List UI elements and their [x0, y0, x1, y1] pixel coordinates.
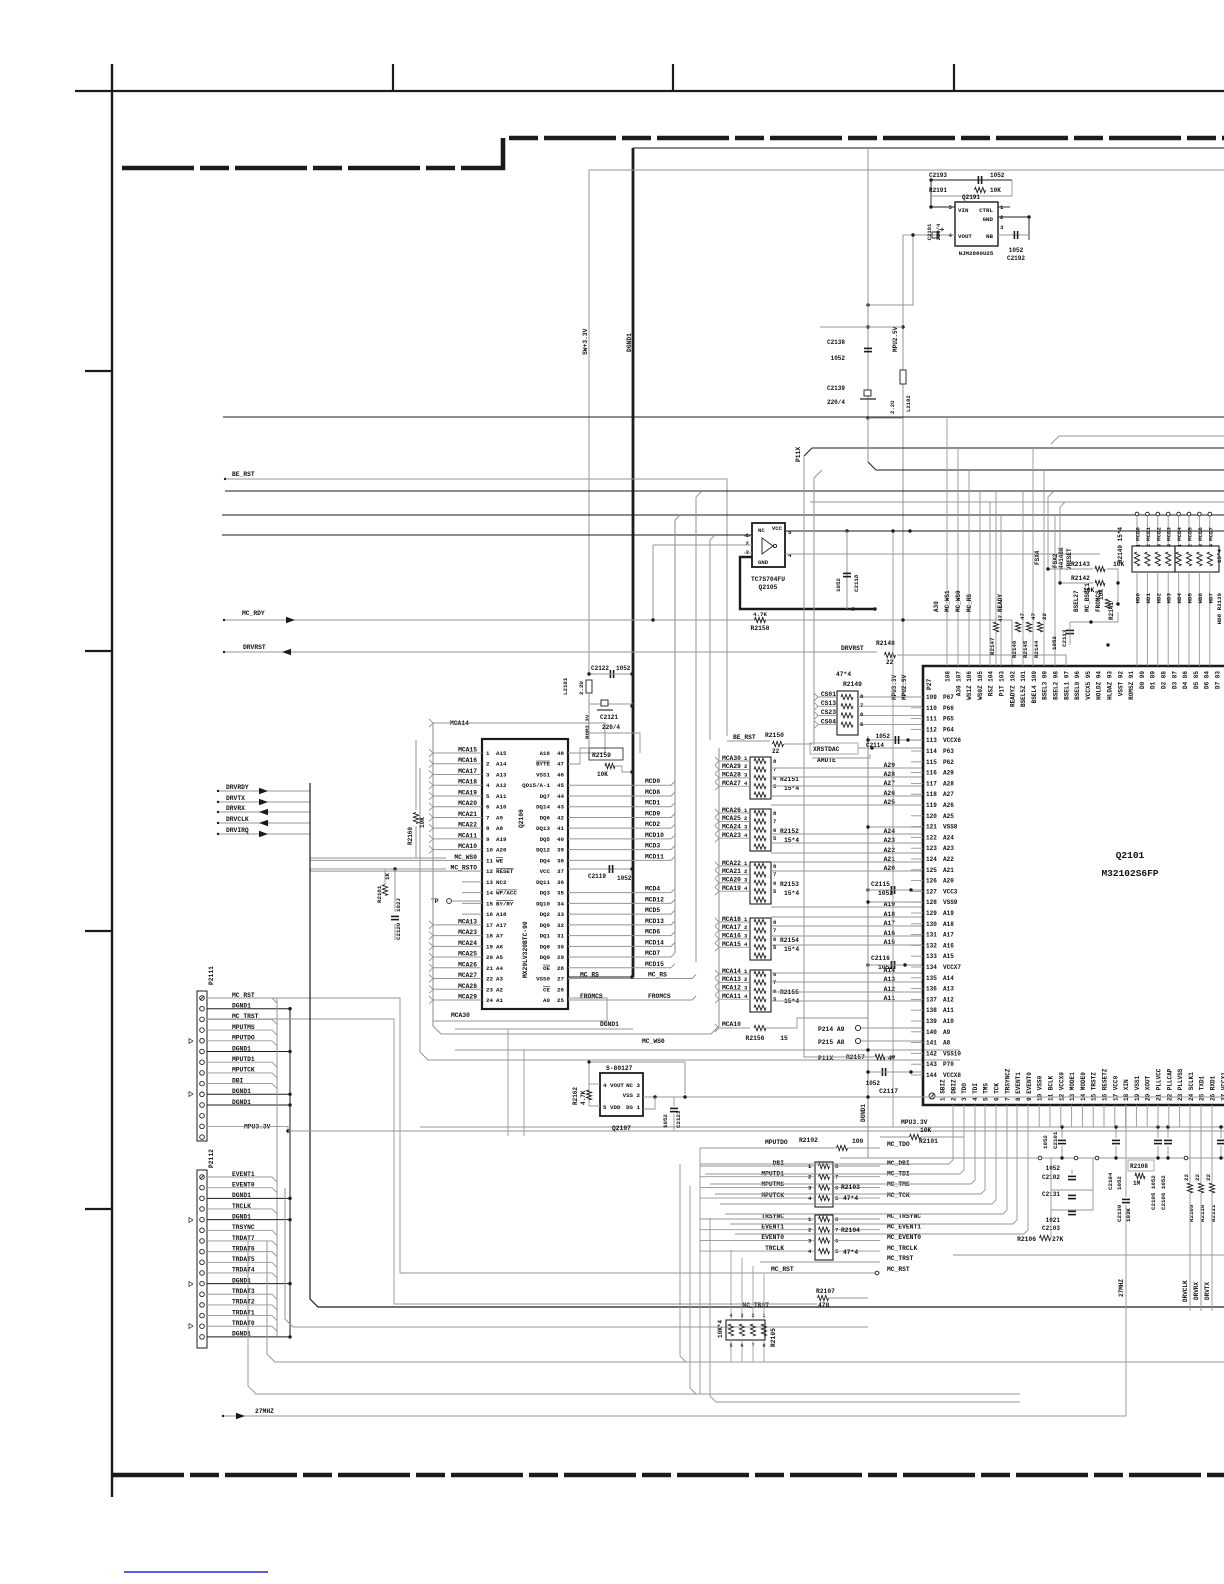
svg-text:2.2U: 2.2U: [889, 401, 896, 414]
svg-text:READY: READY: [997, 594, 1004, 612]
svg-text:MCD3: MCD3: [1166, 527, 1173, 541]
svg-text:S-80127: S-80127: [606, 1065, 633, 1072]
svg-text:27: 27: [557, 976, 564, 983]
svg-text:137: 137: [926, 996, 937, 1003]
resistor R2141 10K vertical: [1105, 599, 1110, 609]
svg-text:BSEL5Z 101: BSEL5Z 101: [1020, 671, 1027, 707]
nested corner wires from IC bottom pins to left: [949, 1105, 953, 1164]
svg-text:DQ2: DQ2: [540, 911, 551, 918]
svg-text:1052: 1052: [616, 665, 631, 672]
svg-text:21: 21: [486, 965, 493, 972]
bus line y448: [804, 448, 1224, 456]
svg-text:3 TDO: 3 TDO: [961, 1083, 968, 1101]
svg-text:R2145: R2145: [1022, 640, 1029, 658]
svg-text:MC_TRCLK: MC_TRCLK: [887, 1245, 917, 1252]
wire flash DGND1 pin27: [568, 976, 633, 978]
svg-text:MCA26: MCA26: [458, 961, 477, 968]
svg-text:27MHZ: 27MHZ: [255, 1408, 274, 1415]
svg-text:47: 47: [997, 615, 1004, 622]
svg-text:17: 17: [486, 922, 493, 929]
svg-text:HD6: HD6: [1197, 592, 1204, 603]
svg-text:A13: A13: [943, 986, 954, 993]
svg-text:MCA21: MCA21: [458, 811, 477, 818]
svg-text:132: 132: [926, 942, 937, 949]
svg-text:R2103: R2103: [841, 1184, 860, 1191]
svg-text:2: 2: [746, 540, 750, 547]
bus line y436: [1051, 436, 1224, 444]
svg-text:122: 122: [926, 834, 937, 841]
svg-text:22: 22: [886, 659, 894, 666]
svg-text:C2121: C2121: [600, 714, 618, 721]
svg-text:A13: A13: [496, 771, 507, 778]
border: left vertical frame line: [111, 64, 113, 1497]
wire ROM3.3V to flash VCC route: [589, 733, 640, 753]
border tick left y931: [85, 930, 112, 932]
svg-text:P2111: P2111: [208, 966, 215, 985]
svg-text:1: 1: [486, 750, 490, 757]
svg-text:R2146: R2146: [1011, 640, 1018, 658]
wire READY drop to IC pin 102: [1011, 620, 1013, 666]
svg-text:MCD10: MCD10: [645, 832, 664, 839]
svg-text:A8: A8: [943, 1040, 951, 1047]
svg-text:MX29LV320BTC-90: MX29LV320BTC-90: [522, 921, 529, 978]
svg-text:D7 83: D7 83: [1215, 671, 1222, 689]
svg-text:VCC3: VCC3: [943, 888, 958, 895]
svg-text:20: 20: [486, 954, 493, 961]
svg-text:DRVIRQ: DRVIRQ: [226, 827, 249, 834]
svg-text:A5: A5: [496, 954, 503, 961]
svg-text:40: 40: [557, 836, 564, 843]
svg-text:A12: A12: [496, 782, 507, 789]
resistor R2160 10K vertical: [415, 740, 417, 810]
svg-text:OE: OE: [543, 965, 550, 972]
capacitor C2138 1052: [867, 148, 869, 418]
svg-text:A11: A11: [496, 793, 507, 800]
svg-text:22: 22: [772, 748, 780, 755]
svg-text:MCD4: MCD4: [645, 886, 660, 893]
svg-text:BYTE: BYTE: [536, 761, 550, 768]
svg-text:A14: A14: [943, 975, 954, 982]
svg-text:47*4: 47*4: [843, 1249, 858, 1256]
svg-text:MCA25: MCA25: [458, 951, 477, 958]
svg-text:HD8 R2139: HD8 R2139: [1216, 592, 1223, 624]
svg-text:A16: A16: [943, 942, 954, 949]
resistor R2158 4.7K on MC_RDY: [755, 617, 766, 622]
svg-text:DRVRST: DRVRST: [243, 644, 266, 651]
svg-text:R2105: R2105: [770, 1328, 777, 1347]
svg-text:NC: NC: [758, 527, 765, 534]
svg-text:1: 1: [1000, 204, 1004, 211]
svg-text:MPU2.5V: MPU2.5V: [901, 674, 908, 700]
svg-text:5 TMS: 5 TMS: [983, 1083, 990, 1101]
svg-text:MCA13: MCA13: [458, 918, 477, 925]
svg-text:119: 119: [926, 802, 937, 809]
svg-text:A15: A15: [496, 750, 507, 757]
svg-text:A18: A18: [496, 911, 507, 918]
svg-text:R2162: R2162: [572, 1087, 579, 1105]
resistor network R2104 47*4: [815, 1215, 833, 1260]
svg-text:MCA28: MCA28: [458, 983, 477, 990]
svg-text:WP/ACC: WP/ACC: [496, 890, 517, 897]
svg-text:DQ5: DQ5: [540, 836, 551, 843]
svg-text:28: 28: [557, 965, 564, 972]
svg-text:DGND1: DGND1: [860, 1104, 867, 1122]
svg-text:MCD8: MCD8: [645, 789, 660, 796]
bus line y491: [225, 490, 1224, 492]
svg-text:139: 139: [926, 1018, 937, 1025]
svg-text:C2192: C2192: [1007, 255, 1025, 262]
svg-text:MCD4: MCD4: [1176, 527, 1183, 541]
svg-text:A27: A27: [943, 791, 954, 798]
svg-text:130: 130: [926, 921, 937, 928]
svg-text:A22: A22: [943, 856, 954, 863]
bus line y470: [868, 462, 1224, 470]
svg-text:4: 4: [486, 782, 490, 789]
svg-text:R2140 15*4: R2140 15*4: [1117, 527, 1124, 563]
svg-text:MC_RS: MC_RS: [966, 594, 973, 612]
bus MCD vertical collector x675: [674, 520, 676, 953]
svg-text:31: 31: [557, 933, 564, 940]
bus line y515: [222, 514, 1224, 516]
svg-text:P214 A9: P214 A9: [818, 1026, 845, 1033]
svg-text:C2115: C2115: [871, 881, 890, 888]
svg-text:1052: 1052: [1051, 636, 1058, 650]
svg-text:15*4: 15*4: [1216, 549, 1223, 563]
svg-text:13: 13: [486, 879, 493, 886]
svg-text:VDD: VDD: [610, 1104, 621, 1111]
connector group marks P2111: [189, 1039, 193, 1044]
svg-text:QD15/A-1: QD15/A-1: [522, 782, 550, 789]
svg-text:C2123: C2123: [675, 1110, 682, 1128]
capacitor C2117 1052: [881, 1068, 883, 1076]
svg-text:P62: P62: [943, 759, 954, 766]
net 27MHZ wire with arrow: [223, 1415, 1126, 1417]
svg-text:A20: A20: [496, 847, 507, 854]
svg-text:C2139: C2139: [827, 385, 845, 392]
capacitor C2130 103K on 27MHZ: [1122, 1198, 1130, 1200]
wire MCD4 drop to R2140: [1177, 512, 1181, 516]
IC bottom pin vertical stubs to decoupling rows: [1038, 1105, 1040, 1127]
svg-text:NB: NB: [986, 233, 993, 240]
svg-text:18: 18: [486, 933, 493, 940]
svg-text:MCD9: MCD9: [645, 810, 660, 817]
svg-text:4 TDI: 4 TDI: [972, 1083, 979, 1101]
svg-text:15*4: 15*4: [784, 998, 799, 1005]
svg-text:BSEL1 97: BSEL1 97: [1063, 671, 1070, 700]
net XRSTDAC: [810, 743, 858, 754]
bus MCA vertical collector: [433, 723, 719, 1034]
wire inverter pin5 VCC to right: [785, 530, 1224, 532]
svg-text:NC 3: NC 3: [626, 1082, 640, 1089]
svg-text:VSS9: VSS9: [943, 899, 958, 906]
svg-text:15*4: 15*4: [784, 890, 799, 897]
svg-text:MCA17: MCA17: [458, 768, 477, 775]
svg-text:VIN: VIN: [958, 207, 969, 214]
svg-text:DRVTX: DRVTX: [1204, 1282, 1211, 1300]
svg-text:A19: A19: [496, 836, 507, 843]
svg-text:128: 128: [926, 899, 937, 906]
inverter U Q2105 TC7S704FU box: [752, 523, 785, 567]
svg-text:MCD15: MCD15: [645, 961, 664, 968]
resistor R2162 4.7K vertical: [586, 1090, 591, 1100]
svg-text:1052: 1052: [662, 1114, 669, 1128]
wire XIN 27MHZ column from pin18: [1125, 1105, 1127, 1158]
svg-text:A26: A26: [943, 802, 954, 809]
svg-text:HD5: HD5: [1187, 592, 1194, 603]
regulator Q2191 NJM2880U25: [955, 202, 998, 246]
svg-text:ROMSZ 91: ROMSZ 91: [1128, 671, 1135, 700]
svg-text:22: 22: [1041, 613, 1048, 620]
wire DGND1 top horizontal: [633, 147, 1224, 149]
svg-text:A17: A17: [943, 932, 954, 939]
svg-text:MCD6: MCD6: [645, 929, 660, 936]
inductor L2102 2.2U: [900, 370, 906, 384]
svg-text:46: 46: [557, 771, 564, 778]
bus line y535 left of inverter: [222, 534, 752, 536]
resistor network R2155 15*4: [750, 970, 771, 1012]
svg-text:P11X: P11X: [818, 1055, 833, 1062]
svg-text:VCC: VCC: [772, 525, 783, 532]
svg-text:DGND1: DGND1: [626, 333, 633, 352]
svg-text:HD4: HD4: [1176, 592, 1183, 603]
wire MCD1 drop to R2140: [1146, 512, 1150, 516]
bus BE_RST vertical x710: [709, 540, 711, 740]
bus vertical x310 from DRV arrows: [310, 783, 1224, 1307]
svg-text:MCA11: MCA11: [458, 832, 477, 839]
svg-text:MC_RST: MC_RST: [771, 1266, 794, 1273]
svg-text:C2105 1052: C2105 1052: [1150, 1175, 1157, 1210]
svg-text:109: 109: [926, 694, 937, 701]
svg-text:7: 7: [773, 818, 776, 825]
svg-text:10K: 10K: [419, 817, 426, 828]
capacitor C2192 1052 (output): [1013, 231, 1015, 239]
svg-text:MCA23: MCA23: [458, 929, 477, 936]
svg-text:C2118: C2118: [853, 574, 860, 592]
svg-text:MCD2: MCD2: [1155, 527, 1162, 541]
svg-text:1 SBIZ: 1 SBIZ: [940, 1079, 947, 1101]
svg-text:TP: TP: [431, 898, 439, 905]
svg-text:42: 42: [557, 814, 564, 821]
svg-text:126: 126: [926, 878, 937, 885]
svg-text:MCD5: MCD5: [1187, 527, 1194, 541]
wire DGND1 drop below flash: [507, 1029, 509, 1136]
wire regulator input loop: [931, 180, 1012, 207]
microcontroller U Q2101 M32102S6FP box: [923, 666, 1224, 1105]
svg-text:C2130: C2130: [1116, 1204, 1123, 1222]
svg-text:DQ12: DQ12: [536, 847, 550, 854]
svg-text:DQ9: DQ9: [540, 922, 551, 929]
bus lower horizontal 1060: [420, 768, 960, 1060]
svg-text:A28: A28: [943, 780, 954, 787]
svg-text:134: 134: [926, 964, 937, 971]
svg-text:MCD12: MCD12: [645, 896, 664, 903]
svg-text:5: 5: [603, 1104, 607, 1111]
svg-text:32: 32: [557, 922, 564, 929]
svg-text:MC_TCK: MC_TCK: [887, 1192, 910, 1199]
svg-text:39: 39: [557, 847, 564, 854]
border tick top x393: [392, 64, 394, 91]
svg-text:MC_DBI: MC_DBI: [887, 1160, 910, 1167]
svg-text:R2101: R2101: [919, 1138, 938, 1145]
wire drop to R2142: [1060, 502, 1065, 583]
svg-text:HOLDZ 94: HOLDZ 94: [1096, 671, 1103, 700]
svg-text:7 TRSYNCZ: 7 TRSYNCZ: [1004, 1068, 1011, 1101]
svg-text:TC7S704FU: TC7S704FU: [751, 576, 785, 583]
svg-text:131: 131: [926, 932, 937, 939]
svg-text:MCD7: MCD7: [645, 950, 660, 957]
capacitor C2118 1052: [846, 531, 848, 609]
svg-text:R2143: R2143: [1071, 561, 1090, 568]
svg-text:4.7K: 4.7K: [580, 1090, 587, 1105]
wire SW+3.3V rail: [589, 170, 1224, 673]
svg-text:6 TCK: 6 TCK: [994, 1083, 1001, 1101]
svg-text:MCD5: MCD5: [645, 907, 660, 914]
svg-text:22: 22: [1205, 1174, 1212, 1181]
wire inverter GND thick to DGND: [740, 557, 875, 609]
svg-text:MC_RS: MC_RS: [580, 972, 599, 979]
svg-text:A20: A20: [943, 878, 954, 885]
svg-text:25: 25: [557, 997, 564, 1004]
svg-text:C2106 1052: C2106 1052: [1160, 1175, 1167, 1210]
svg-text:1052: 1052: [1042, 1135, 1049, 1149]
svg-text:22: 22: [486, 976, 493, 983]
svg-text:140: 140: [926, 1029, 937, 1036]
svg-text:ROM3.3V: ROM3.3V: [584, 714, 591, 739]
svg-text:READYZ 102: READYZ 102: [1009, 671, 1016, 707]
svg-text:C2191: C2191: [926, 223, 933, 240]
svg-text:DRVRX: DRVRX: [226, 805, 245, 812]
svg-text:Q2105: Q2105: [759, 584, 778, 591]
svg-text:L2102: L2102: [905, 395, 912, 412]
svg-text:R2142: R2142: [1071, 575, 1090, 582]
bus wire x285: [285, 1188, 868, 1327]
bus slant taps joining collectors to mesh: [675, 515, 680, 520]
svg-text:A8: A8: [496, 825, 503, 832]
svg-text:4: 4: [1208, 544, 1214, 547]
svg-text:C2104: C2104: [1107, 1172, 1114, 1190]
svg-text:48: 48: [557, 750, 564, 757]
wire VSS8 row: [868, 826, 923, 828]
svg-text:14: 14: [486, 890, 493, 897]
svg-text:HD3: HD3: [1166, 592, 1173, 603]
dashed block boundary (bottom): [112, 1473, 1224, 1478]
svg-text:GND: GND: [983, 216, 994, 223]
resistor R2147 47: [993, 622, 998, 632]
svg-text:D2 88: D2 88: [1161, 671, 1168, 689]
svg-text:22: 22: [1183, 1174, 1190, 1181]
svg-text:MPU3.3V: MPU3.3V: [901, 1119, 928, 1126]
bus wire x267 to bottom bus: [267, 1241, 1224, 1362]
svg-text:29: 29: [557, 954, 564, 961]
svg-text:D3 87: D3 87: [1171, 671, 1178, 689]
svg-text:27K: 27K: [1052, 1236, 1064, 1243]
svg-text:127: 127: [926, 888, 937, 895]
svg-text:16 RESETZ: 16 RESETZ: [1102, 1068, 1109, 1101]
svg-text:4: 4: [1167, 544, 1173, 547]
svg-text:R2107: R2107: [816, 1288, 835, 1295]
svg-text:MCD14: MCD14: [645, 939, 664, 946]
svg-text:R2149: R2149: [843, 681, 862, 688]
border tick left y371: [85, 370, 112, 372]
svg-text:NJM2880U25: NJM2880U25: [959, 250, 994, 257]
svg-text:MCD2: MCD2: [645, 821, 660, 828]
svg-text:DGND1: DGND1: [600, 1021, 619, 1028]
svg-text:19: 19: [486, 943, 493, 950]
svg-text:22 PLLCAP: 22 PLLCAP: [1166, 1068, 1173, 1101]
left feeder verticals to bottom rows: [680, 1164, 686, 1362]
svg-text:34: 34: [557, 900, 564, 907]
wire VCC pin37 with capacitor C2119 1052: [568, 868, 633, 870]
svg-text:2.2U: 2.2U: [578, 681, 585, 695]
svg-text:4.7K: 4.7K: [753, 611, 767, 618]
wire MCD3 drop to R2140: [1166, 512, 1170, 516]
svg-text:A12: A12: [943, 996, 954, 1003]
svg-text:1052: 1052: [1116, 1176, 1123, 1190]
resistor network R2153 15*4: [750, 862, 771, 904]
R2105 bottom stubs: [730, 1340, 732, 1362]
svg-text:DRVCLK: DRVCLK: [1182, 1280, 1189, 1302]
svg-text:3: 3: [1000, 224, 1004, 231]
svg-text:A9: A9: [496, 814, 503, 821]
svg-text:123: 123: [926, 845, 937, 852]
junction dots on DGND trunk: [630, 672, 633, 675]
svg-text:33: 33: [557, 911, 564, 918]
svg-text:MPU2.5V: MPU2.5V: [892, 326, 899, 352]
svg-text:R2111: R2111: [1210, 1204, 1217, 1222]
svg-text:112: 112: [926, 726, 937, 733]
svg-text:117: 117: [926, 780, 937, 787]
svg-text:GND: GND: [758, 559, 769, 566]
resistor R2161 1K with capacitor C2120 102J: [393, 867, 396, 870]
svg-text:MCD6: MCD6: [1197, 527, 1204, 541]
svg-text:MC_WS0: MC_WS0: [642, 1038, 665, 1045]
svg-text:P63: P63: [943, 748, 954, 755]
svg-text:DRVTX: DRVTX: [226, 795, 245, 802]
svg-text:P2112: P2112: [208, 1149, 215, 1168]
svg-text:MCA29: MCA29: [458, 994, 477, 1001]
svg-text:MPU3.3V: MPU3.3V: [891, 674, 898, 700]
net MC_RST long route: [207, 998, 700, 1273]
svg-text:7: 7: [835, 1174, 838, 1181]
wire MCD2 drop to R2140: [1156, 512, 1160, 516]
svg-text:XRSTDAC: XRSTDAC: [813, 746, 840, 753]
svg-text:R2154: R2154: [780, 937, 799, 944]
wire DGND1 vertical trunk: [632, 148, 635, 977]
svg-text:NC2: NC2: [496, 879, 507, 886]
svg-text:RESET: RESET: [496, 868, 514, 875]
svg-text:7: 7: [486, 814, 490, 821]
svg-text:A30 107: A30 107: [955, 671, 962, 697]
svg-text:VSS10: VSS10: [943, 1050, 961, 1057]
svg-text:MCD0: MCD0: [1135, 527, 1142, 541]
svg-text:A0: A0: [543, 997, 550, 1004]
svg-text:38: 38: [557, 857, 564, 864]
svg-text:R2108: R2108: [1130, 1163, 1148, 1170]
resistor R2108 1M: [1128, 1160, 1154, 1171]
border tick top x673: [672, 64, 674, 91]
svg-text:41: 41: [557, 825, 564, 832]
resistor network R2103 47*4: [815, 1162, 833, 1207]
svg-text:MCD7: MCD7: [1207, 527, 1214, 541]
svg-text:R2102: R2102: [799, 1137, 818, 1144]
svg-text:3: 3: [1198, 544, 1204, 547]
capacitor C2193 1052 (input bypass): [948, 179, 1012, 181]
svg-text:135: 135: [926, 975, 937, 982]
svg-text:A11: A11: [943, 1007, 954, 1014]
svg-text:16: 16: [486, 911, 493, 918]
svg-text:1M: 1M: [1133, 1180, 1141, 1187]
svg-text:P67: P67: [943, 694, 954, 701]
